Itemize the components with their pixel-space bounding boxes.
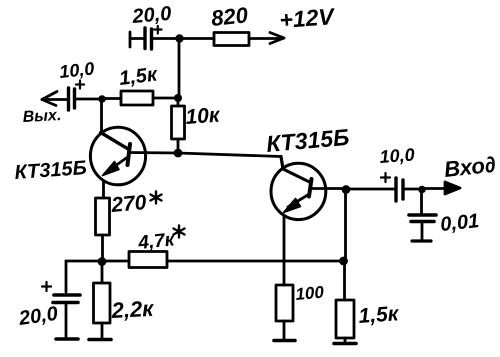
- svg-text:20,0: 20,0: [17, 303, 60, 330]
- svg-text:Вхо∂: Вхо∂: [443, 152, 497, 182]
- svg-text:0,01: 0,01: [439, 210, 480, 236]
- svg-text:4,7к: 4,7к: [136, 229, 176, 254]
- svg-text:10,0: 10,0: [379, 145, 415, 167]
- svg-text:20,0: 20,0: [131, 3, 173, 28]
- svg-text:100: 100: [295, 283, 325, 304]
- svg-text:10к: 10к: [185, 104, 222, 129]
- svg-text:10,0: 10,0: [58, 58, 95, 82]
- svg-text:КТ315Б: КТ315Б: [265, 124, 350, 157]
- svg-text:820: 820: [210, 2, 250, 31]
- svg-text:1,5к: 1,5к: [358, 302, 401, 328]
- svg-text:+12V: +12V: [279, 3, 337, 33]
- svg-text:КТ315Б: КТ315Б: [14, 157, 88, 184]
- svg-text:270: 270: [109, 191, 147, 217]
- svg-text:2,2к: 2,2к: [110, 296, 156, 323]
- svg-text:Вых.: Вых.: [22, 107, 61, 126]
- svg-text:1,5к: 1,5к: [118, 63, 159, 90]
